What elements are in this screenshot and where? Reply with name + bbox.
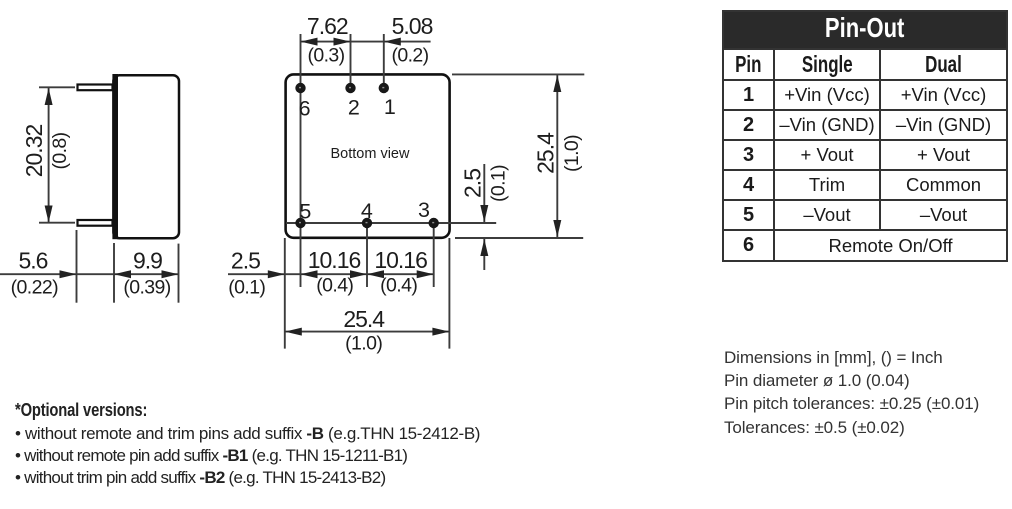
bottom pin row line [286,222,496,224]
svg-text:(0.22): (0.22) [11,277,58,299]
svg-text:(1.0): (1.0) [561,135,583,172]
left extension lines below side view [0,230,179,303]
Pin-Out table [722,10,1008,262]
notes right [724,346,979,439]
pin 1 [379,83,389,93]
svg-text:25.4: 25.4 [343,306,385,332]
svg-text:(0.39): (0.39) [123,277,170,299]
pin 3 [429,218,439,228]
svg-text:5.08: 5.08 [392,13,433,39]
svg-text:(1.0): (1.0) [345,333,382,355]
dim line 25.4 bottom [285,331,450,333]
arrows 5.6 / 9.9 [60,270,179,278]
top dim line [301,41,431,43]
dim 2.5 right upper line [483,164,485,222]
svg-text:Bottom view: Bottom view [331,146,410,162]
bottom dim line 2.5/10.16 [228,273,434,275]
top dim arrows [301,38,401,46]
dim 20.32 arrows [45,88,53,223]
svg-text:(0.3): (0.3) [307,45,344,67]
dim 20.32 line [48,88,50,223]
right extension lines [452,74,584,270]
side view top pin [78,85,113,91]
svg-text:7.62: 7.62 [307,13,348,39]
svg-text:3: 3 [418,198,430,222]
bottom extension lines pins 4,3 [228,223,449,349]
svg-text:25.4: 25.4 [533,132,559,174]
dim 2.5 right lower line [483,239,485,270]
svg-text:(0.8): (0.8) [49,132,71,169]
optional versions notes [15,402,480,489]
pin 2 [345,83,355,93]
dim 20.32 ticks [39,87,75,222]
svg-text:4: 4 [361,199,373,223]
dim line 5.6 / 9.9 [0,273,179,275]
svg-text:(0.2): (0.2) [391,45,428,67]
right dim arrows [480,75,561,256]
top extension lines pins 6,2,1 [301,34,431,287]
box bottom extensions [284,238,286,349]
bottom view box [286,74,450,237]
svg-text:2.5: 2.5 [231,248,260,274]
svg-text:10.16: 10.16 [308,247,361,273]
svg-text:(0.4): (0.4) [316,275,353,297]
svg-text:5.6: 5.6 [19,248,48,274]
pin 5 [295,218,305,228]
svg-text:10.16: 10.16 [374,247,427,273]
svg-text:2.5: 2.5 [460,169,486,198]
svg-text:9.9: 9.9 [133,248,162,274]
svg-text:2: 2 [348,96,360,120]
svg-text:20.32: 20.32 [21,125,47,178]
pin 4 [362,218,372,228]
side view bottom pin [78,220,113,226]
dim line 25.4 right [556,75,558,237]
svg-text:5: 5 [299,200,311,224]
side view body [112,74,179,239]
svg-text:(0.1): (0.1) [488,165,510,202]
svg-text:1: 1 [384,95,396,119]
svg-text:(0.4): (0.4) [380,275,417,297]
svg-text:(0.1): (0.1) [228,277,265,299]
pin 6 [295,83,305,93]
bottom dim arrows [268,270,450,335]
svg-text:6: 6 [299,97,311,121]
